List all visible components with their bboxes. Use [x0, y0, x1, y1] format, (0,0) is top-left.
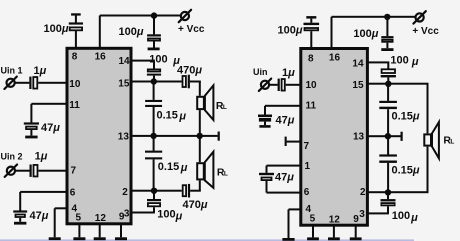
svg-text:+ Vcc: + Vcc — [412, 26, 439, 37]
svg-text:8: 8 — [308, 54, 314, 65]
svg-text:15: 15 — [118, 79, 130, 90]
svg-text:L: L — [224, 171, 228, 178]
svg-text:100μ: 100μ — [44, 23, 69, 35]
svg-text:100μ: 100μ — [278, 25, 303, 37]
svg-text:6: 6 — [304, 187, 310, 198]
svg-text:100 μ: 100 μ — [390, 54, 418, 68]
svg-text:10: 10 — [306, 80, 318, 91]
svg-text:1μ: 1μ — [34, 65, 47, 77]
svg-text:0.15μ: 0.15μ — [392, 165, 420, 177]
svg-text:13: 13 — [353, 132, 365, 143]
svg-text:8: 8 — [72, 51, 78, 62]
svg-text:100μ: 100μ — [353, 28, 378, 40]
svg-text:0.15μ: 0.15μ — [158, 161, 188, 174]
svg-text:5: 5 — [310, 214, 316, 225]
svg-text:Uin: Uin — [253, 67, 268, 77]
svg-text:14: 14 — [119, 56, 131, 67]
svg-text:1μ: 1μ — [35, 151, 48, 163]
svg-text:2: 2 — [122, 187, 128, 198]
svg-text:11: 11 — [306, 101, 317, 112]
svg-text:47μ: 47μ — [276, 114, 295, 126]
svg-text:10: 10 — [69, 79, 81, 90]
svg-text:16: 16 — [329, 53, 341, 64]
svg-text:Uin 1: Uin 1 — [1, 66, 23, 76]
svg-text:+ Vcc: + Vcc — [178, 24, 205, 35]
svg-text:Uin 2: Uin 2 — [1, 152, 23, 162]
svg-text:13: 13 — [118, 131, 130, 142]
svg-text:12: 12 — [95, 213, 107, 224]
svg-text:12: 12 — [329, 214, 341, 225]
svg-text:14: 14 — [352, 59, 364, 70]
svg-text:L: L — [450, 138, 454, 145]
svg-text:3: 3 — [359, 209, 365, 220]
svg-text:100μ: 100μ — [119, 26, 144, 38]
svg-text:11: 11 — [69, 100, 80, 111]
svg-text:7: 7 — [304, 141, 310, 152]
svg-text:16: 16 — [95, 51, 107, 62]
svg-text:0.15μ: 0.15μ — [157, 109, 187, 122]
svg-text:47μ: 47μ — [275, 171, 294, 183]
svg-text:47μ: 47μ — [30, 210, 49, 222]
svg-text:100 μ: 100 μ — [149, 53, 180, 67]
svg-text:3: 3 — [124, 209, 130, 220]
svg-text:2: 2 — [360, 187, 366, 198]
svg-text:1μ: 1μ — [282, 67, 295, 79]
svg-text:6: 6 — [70, 187, 76, 198]
svg-text:L: L — [223, 104, 227, 111]
svg-text:47μ: 47μ — [41, 122, 60, 134]
svg-text:470μ: 470μ — [177, 65, 202, 77]
svg-text:470μ: 470μ — [183, 199, 208, 211]
svg-text:5: 5 — [76, 212, 82, 223]
svg-text:15: 15 — [352, 80, 364, 91]
svg-text:0.15μ: 0.15μ — [392, 111, 420, 123]
svg-text:7: 7 — [71, 166, 77, 177]
svg-text:1: 1 — [305, 161, 311, 172]
